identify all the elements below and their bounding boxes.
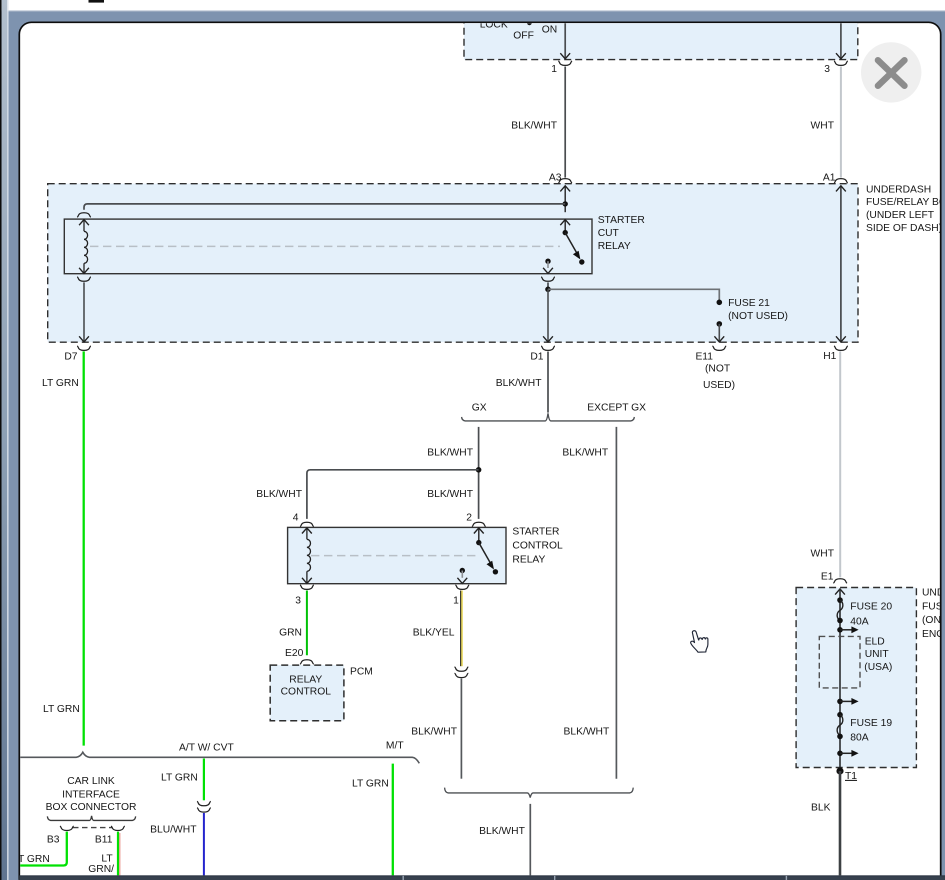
svg-text:ELD: ELD [865,637,885,648]
svg-text:FUSE 19: FUSE 19 [850,718,892,729]
connector pin 1 [455,585,469,589]
wire BLU/WHT [203,813,205,875]
svg-text:B11: B11 [95,835,113,846]
svg-text:D1: D1 [530,352,543,363]
top browser icon fragment [89,0,105,3]
svg-text:E1: E1 [821,572,834,583]
svg-text:RELAY: RELAY [598,241,631,252]
svg-text:CONTROL: CONTROL [512,540,563,551]
connector B3 [60,826,74,830]
svg-text:BLK/WHT: BLK/WHT [256,489,302,500]
svg-text:USED): USED) [703,380,735,391]
wire LT GRN D7 down [83,351,85,745]
svg-text:M/T: M/T [386,741,404,752]
tap arrow 2 [837,699,843,705]
starter control relay box [288,527,506,583]
svg-text:BLK: BLK [811,803,831,814]
wire BLK/WHT ignition to A3 [564,67,566,178]
svg-text:RELAY: RELAY [289,674,322,685]
dashed centerline starter cut relay [90,245,560,247]
wire junction to fuse 21 [548,289,719,300]
relay switch common pin 2 [474,528,484,534]
svg-text:A/T W/ CVT: A/T W/ CVT [179,742,234,753]
svg-text:1: 1 [551,64,557,75]
svg-text:A3: A3 [549,172,562,183]
svg-text:80A: 80A [850,732,868,743]
relay switch contact to pin 1 [460,568,465,573]
svg-text:E11: E11 [695,352,713,363]
close button [861,42,921,102]
fuse 19 [837,712,843,718]
tap arrow 3 [837,751,843,757]
svg-text:2: 2 [466,513,472,524]
wire GRN pin3 to E20 [306,591,308,656]
connector H1 [834,346,848,350]
svg-text:GX: GX [472,403,487,414]
svg-text:FUSE 21: FUSE 21 [728,298,770,309]
svg-text:LT GRN: LT GRN [43,704,80,715]
ignition pivot dot [527,20,532,25]
svg-text:STARTER: STARTER [512,526,559,537]
svg-text:PCM: PCM [350,666,373,677]
svg-text:UNIT: UNIT [865,649,890,660]
wire LT GRN A/T branch [203,759,205,801]
wire to junction [547,282,549,289]
svg-text:ON: ON [542,25,557,36]
node junction GX [476,467,482,473]
connector A3 [558,179,572,183]
relay coil K1 [79,220,89,226]
svg-text:A1: A1 [823,172,836,183]
connector pin 2 [472,522,486,526]
svg-text:BOX CONNECTOR: BOX CONNECTOR [46,802,137,813]
connector D7 [77,346,91,350]
svg-text:BLK/WHT: BLK/WHT [479,826,525,837]
svg-text:3: 3 [824,64,830,75]
svg-text:BLK/WHT: BLK/WHT [411,726,457,737]
svg-text:EXCEPT GX: EXCEPT GX [587,403,646,414]
wire WHT ignition to A1 [840,67,842,178]
svg-text:CONTROL: CONTROL [281,686,332,697]
relay switch arm [479,543,491,564]
svg-text:40A: 40A [850,617,868,628]
svg-text:(UNDER LEFT: (UNDER LEFT [866,210,935,221]
connector relay switch out [541,277,555,281]
svg-text:BLK/WHT: BLK/WHT [427,489,473,500]
underdash fuse/relay box [48,184,858,343]
svg-text:1: 1 [453,596,459,607]
PCM box [270,665,344,721]
merge brace M/T join [445,788,634,798]
svg-text:SIDE OF DASH): SIDE OF DASH) [866,223,942,234]
wire junction to coil top [84,204,565,210]
svg-text:(NOT USED): (NOT USED) [728,311,788,322]
svg-text:B3: B3 [47,835,60,846]
connector E11 [712,346,726,350]
ELD unit box [819,636,860,688]
svg-text:BLK/WHT: BLK/WHT [564,726,610,737]
wire EXCEPT GX branch [615,427,617,779]
svg-text:GRN/: GRN/ [88,864,114,875]
wire fuse21 to E11 [718,324,720,342]
dashed centerline starter control relay [311,555,479,557]
wire ignition pin 1 [564,22,566,59]
connector relay coil top [77,213,91,217]
svg-text:D7: D7 [64,352,77,363]
fuse 20 [837,597,843,603]
wire coil to D7 [77,277,91,281]
wire junction to pin 4 [307,470,479,519]
svg-text:STARTER: STARTER [598,215,645,226]
wire BLK/YEL pin1 down [460,591,462,667]
svg-text:UNDERDASH: UNDERDASH [866,184,931,195]
relay switch common [560,220,570,226]
svg-text:RELAY: RELAY [512,554,545,565]
wire LT GRN M/T branch [392,764,394,876]
wire BLK/WHT below connector [460,679,462,779]
relay switch NC contact [545,259,550,264]
svg-text:(USA): (USA) [864,662,892,673]
connector pin 3 [834,61,848,65]
fuse 21 (not used) terminals [717,300,723,306]
wire A3 into relay [560,186,570,192]
svg-text:H1: H1 [823,351,836,362]
svg-text:BLK/WHT: BLK/WHT [496,378,542,389]
svg-text:3: 3 [295,596,301,607]
svg-text:(NOT: (NOT [705,364,731,375]
node T1 [836,767,843,774]
relay switch arm [565,233,577,254]
wire GX branch [478,427,480,519]
connector pin 4 [300,522,314,526]
svg-text:BLK/WHT: BLK/WHT [511,120,557,131]
wire LT GRN/RED B11 [117,832,119,876]
connector E20 [300,660,314,664]
wire E1 down through box [835,589,845,595]
wire LT GRN B3 to edge [20,832,67,866]
mouse hand cursor [691,631,708,652]
svg-text:WHT: WHT [811,548,835,559]
wire BLK T1 down [839,771,842,875]
underhood fuse/relay box [796,588,916,768]
bottom taskbar [19,875,945,880]
wire D1 to GX split [547,352,549,413]
svg-text:4: 4 [293,513,299,524]
svg-text:BLK/YEL: BLK/YEL [413,627,455,638]
svg-text:FUSE 20: FUSE 20 [850,601,892,612]
inline connector C2 [197,801,211,805]
A/T W/CVT / M/T split line [20,752,420,763]
node junction A3/coil [563,201,568,206]
connector D1 [541,346,555,350]
svg-text:LT: LT [101,854,113,865]
relay coil K2 [302,528,312,534]
svg-text:GRN: GRN [279,627,302,638]
svg-text:CUT: CUT [598,228,620,239]
svg-text:FUSE/RELAY BOX: FUSE/RELAY BOX [866,197,945,208]
connector strip dashed [73,827,112,829]
tap arrow 1 [837,627,843,633]
svg-text:OFF: OFF [513,31,534,42]
svg-text:BLK/WHT: BLK/WHT [562,447,608,458]
svg-text:WHT: WHT [811,120,835,131]
svg-text:BLU/WHT: BLU/WHT [150,824,197,835]
svg-text:LT GRN: LT GRN [161,773,198,784]
wire junction to D1 [547,289,549,341]
starter cut relay box [64,219,592,274]
wire A1 to H1 pass-through [840,186,842,342]
connector pin 3 [300,585,314,589]
svg-text:E20: E20 [285,648,304,659]
wire merged BLK/WHT [529,804,531,876]
svg-text:INTERFACE: INTERFACE [62,789,120,800]
svg-text:BLK/WHT: BLK/WHT [427,447,473,458]
connector B11 [111,826,125,830]
svg-text:LT GRN: LT GRN [42,378,79,389]
svg-text:CAR LINK: CAR LINK [67,776,115,787]
wire WHT H1 to E1 [839,351,841,577]
left gutter [0,0,2,880]
svg-text:LT GRN: LT GRN [352,779,389,790]
node junction D1/fuse21 [545,287,551,293]
inline connector C1 [455,667,469,671]
connector pin 1 [558,61,572,65]
svg-text:T1: T1 [845,771,857,782]
wire ignition pin 3 [840,22,842,59]
ignition switch box [464,14,858,60]
connector A1 [834,179,848,183]
connector E1 [833,579,847,583]
